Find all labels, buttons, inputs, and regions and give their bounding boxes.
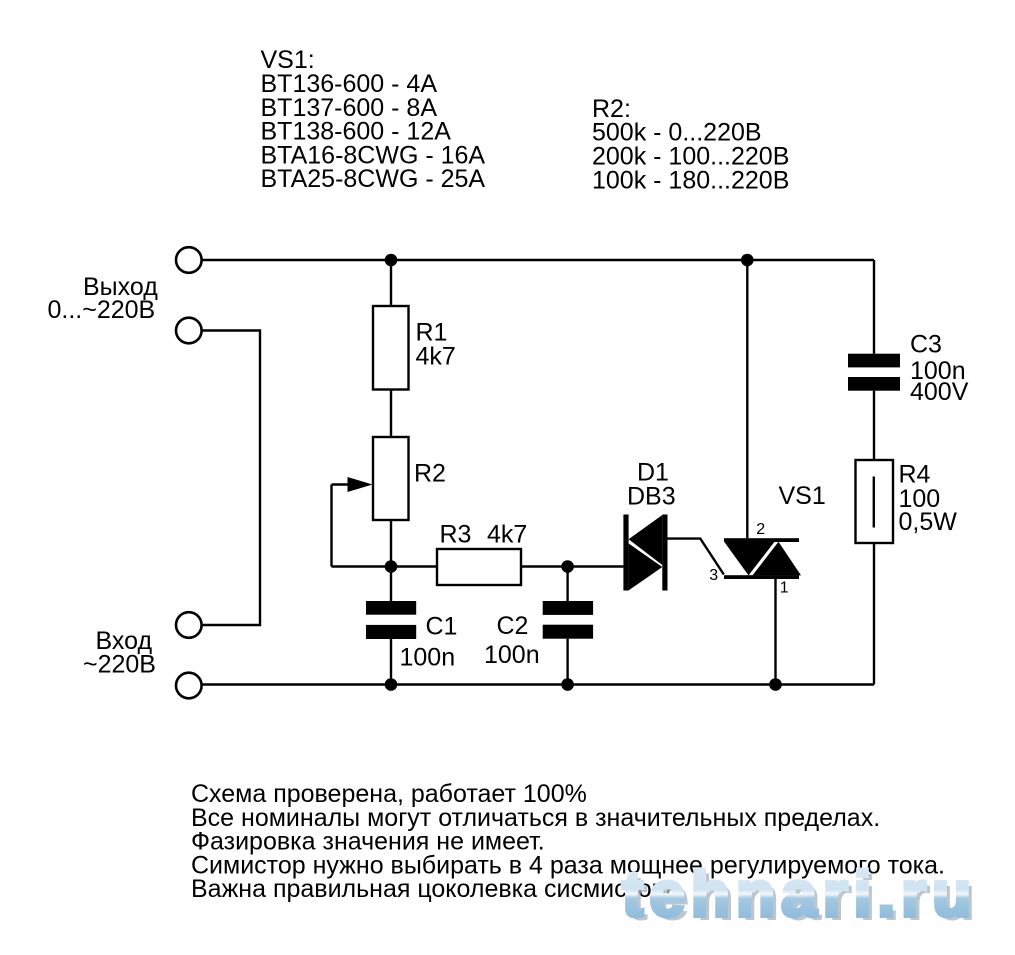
svg-text:VS1: VS1 [779,482,826,510]
svg-text:C3: C3 [910,331,942,359]
label R1 4k7 [416,319,456,371]
svg-text:1: 1 [780,579,789,596]
resistor R1 [373,306,409,390]
wire gate rail [332,565,438,567]
terminal output bottom [176,318,202,344]
label C3 100n 400V [910,331,969,407]
wiper arrow of R2 [332,477,373,492]
svg-text:~220В: ~220В [83,651,156,679]
label R4 100 0,5W [899,461,958,537]
junction gate R2 [385,560,398,573]
resistor R4 [856,460,894,543]
svg-text:3: 3 [709,567,718,584]
label Выход 0...~220В [48,273,159,324]
wire C1 to bottom rail [390,639,392,685]
wire R2 to gate node [390,520,392,601]
wire output loop [202,331,261,626]
junction top triac [741,254,754,267]
diac D1 [623,515,667,591]
note VS1 types list [261,46,486,193]
svg-text:100n: 100n [484,641,540,669]
svg-text:100k - 180...220В: 100k - 180...220В [592,166,789,194]
svg-text:DB3: DB3 [627,483,676,511]
svg-text:0,5W: 0,5W [899,508,958,536]
svg-text:4k7: 4k7 [487,521,527,549]
resistor R3 [437,549,521,585]
svg-text:R3: R3 [440,521,472,549]
junction top R1 [385,254,398,267]
label R3 4k7 [440,521,528,549]
junction bottom C2 [561,678,574,691]
svg-text:BTA25-8CWG - 25A: BTA25-8CWG - 25A [261,165,486,193]
wire bottom rail [202,683,875,685]
note bottom comments [191,780,945,903]
watermark tehnari.ru [622,858,982,934]
wire R1 branch top [390,260,392,306]
label C1 100n [400,613,458,672]
svg-text:tehnari.ru: tehnari.ru [622,858,977,930]
capacitor C1 [366,601,416,639]
wire right riser top [873,260,875,354]
terminal output top [176,247,202,273]
label C2 100n [484,612,540,669]
wire C3 to R4 [873,391,875,460]
svg-text:C2: C2 [497,612,529,640]
svg-text:R2: R2 [414,460,446,488]
svg-text:100n: 100n [400,644,456,672]
capacitor C3 [848,354,900,391]
wire C2 branch [566,567,568,602]
wire triac MT1 [774,579,776,685]
junction gate C2 [561,560,574,573]
svg-text:Важна правильная цоколевка сис: Важна правильная цоколевка сисмистора. [191,875,686,903]
label Вход ~220В [83,627,156,679]
wire R3 to diac [521,565,623,567]
wire top rail [202,259,875,261]
junction bottom C1 [385,678,398,691]
potentiometer R2 [373,437,409,520]
wire R1 to R2 [390,390,392,438]
terminal input top [176,612,202,638]
wire inside R4 [873,477,875,528]
wire triac MT2 [746,260,748,538]
svg-text:C1: C1 [426,613,458,641]
junction bottom triac [769,678,782,691]
terminal input bottom [176,673,202,699]
wire C2 to bottom rail [566,639,568,685]
note R2 value list [592,95,789,194]
triac VS1 [724,538,801,579]
wire wiper feedback [330,485,332,567]
capacitor C2 [543,601,593,639]
svg-text:0...~220В: 0...~220В [48,296,156,324]
label D1 DB3 [627,459,676,511]
svg-text:2: 2 [756,521,765,538]
svg-text:4k7: 4k7 [416,343,456,371]
wire R4 to bottom rail [873,543,875,685]
wire diac to gate [668,539,724,575]
svg-text:400V: 400V [910,378,969,406]
